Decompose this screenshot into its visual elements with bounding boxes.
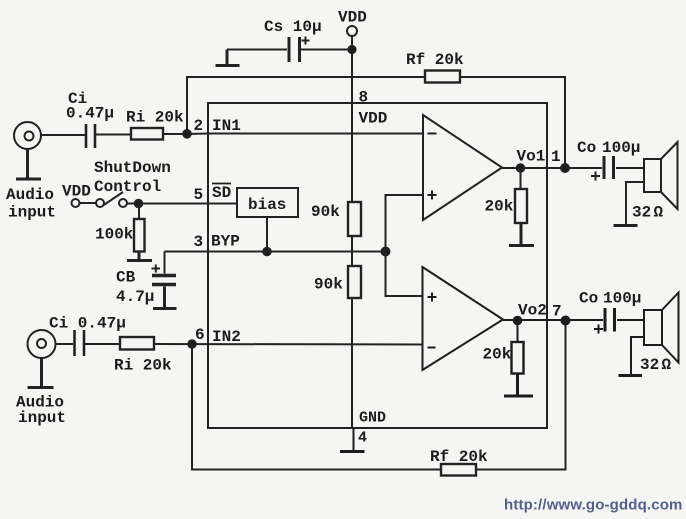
ground for pin 4 xyxy=(340,450,365,453)
connector J1 audio input top xyxy=(14,122,41,149)
pin 4 GND stub xyxy=(353,428,355,450)
op-amp A1 triangle xyxy=(423,115,502,220)
svg-text:VDD: VDD xyxy=(62,183,91,201)
svg-text:Vo1: Vo1 xyxy=(517,148,546,166)
node SD dot xyxy=(135,200,143,208)
svg-text:32: 32 xyxy=(632,204,651,222)
wire BYP to op-amp plus inputs xyxy=(386,195,424,296)
ground for 20k upper xyxy=(509,223,534,246)
A1 minus input mark xyxy=(428,133,437,135)
wire Ci1 to Ri1 xyxy=(96,134,131,136)
svg-text:7: 7 xyxy=(552,303,562,321)
resistor 90k upper xyxy=(348,202,361,236)
node Vo2 feedback dot xyxy=(562,317,570,325)
ground for J2 xyxy=(28,358,54,388)
svg-text:Ri 20k: Ri 20k xyxy=(114,357,172,375)
svg-text:BYP: BYP xyxy=(211,233,240,251)
connector J2 audio input bottom xyxy=(28,330,56,358)
svg-text:100μ: 100μ xyxy=(602,139,640,157)
svg-text:GND: GND xyxy=(359,410,386,427)
op-amp bias box xyxy=(237,188,298,217)
svg-text:SD: SD xyxy=(212,184,231,202)
svg-text:Control: Control xyxy=(94,178,161,196)
node Vo1 20k dot xyxy=(517,164,525,172)
switch SW shutdown circles xyxy=(72,199,80,207)
capacitor Cs plates xyxy=(289,37,300,62)
svg-text:input: input xyxy=(8,204,56,222)
svg-text:Rf 20k: Rf 20k xyxy=(430,448,488,466)
ground for SP2 xyxy=(631,337,644,375)
wire Cs horizontal xyxy=(227,49,352,51)
svg-text:3: 3 xyxy=(194,233,204,251)
wire switch segments xyxy=(80,202,139,205)
svg-text:Co: Co xyxy=(579,290,598,308)
ground for CB xyxy=(153,287,177,309)
wire BYP line pin 3 xyxy=(165,251,386,253)
A2 plus input mark xyxy=(428,293,437,302)
ground for J1 xyxy=(16,149,41,179)
svg-text:20k: 20k xyxy=(485,198,514,216)
svg-text:32: 32 xyxy=(640,356,659,374)
A1 plus input mark xyxy=(428,191,437,200)
wire Ci2 to Ri2 xyxy=(85,343,120,345)
svg-text:Cs 10μ: Cs 10μ xyxy=(264,18,322,36)
capacitor Co2 plates xyxy=(605,308,615,332)
resistor Rf2 20k xyxy=(441,464,476,476)
wire bottom feedback loop IN2 to Vo2 xyxy=(192,321,566,470)
svg-text:90k: 90k xyxy=(314,276,343,294)
wire Ri2 to IN2 pin 6 xyxy=(154,343,423,346)
wire Ri1 to IN1 pin 2 xyxy=(163,133,423,136)
svg-text:Ri 20k: Ri 20k xyxy=(126,109,184,127)
svg-text:VDD: VDD xyxy=(359,110,388,128)
ground for 20k lower xyxy=(504,374,533,397)
node IN1 dot xyxy=(183,130,191,138)
capacitor Co1 plates xyxy=(604,156,614,179)
svg-text:input: input xyxy=(18,409,66,427)
svg-text:1: 1 xyxy=(551,148,561,166)
svg-text:8: 8 xyxy=(359,89,369,107)
svg-text:100μ: 100μ xyxy=(603,290,641,308)
svg-text:IN1: IN1 xyxy=(212,117,241,135)
ground for 100k xyxy=(127,252,152,261)
svg-text:Ci 0.47μ: Ci 0.47μ xyxy=(49,315,126,333)
svg-text:2: 2 xyxy=(194,117,204,135)
capacitor CB 4.7u xyxy=(164,252,166,274)
wire VDD vertical rail (pin 8 down through 90k chain to GND edge) xyxy=(351,37,353,429)
Co2 polarity plus xyxy=(594,325,603,334)
node Vo1 feedback dot xyxy=(561,164,569,172)
svg-text:Co: Co xyxy=(577,139,596,157)
svg-text:Ω: Ω xyxy=(662,356,672,374)
Cs polarity plus xyxy=(302,37,310,45)
svg-text:CB: CB xyxy=(116,269,136,287)
node Vo2 20k dot xyxy=(514,317,522,325)
svg-text:VDD: VDD xyxy=(338,9,367,27)
speaker SP2 xyxy=(644,310,662,345)
node VDD junction dot xyxy=(348,46,355,53)
wire Vo1 output line xyxy=(502,167,644,169)
resistor Rf1 20k xyxy=(425,71,460,83)
svg-text:20k: 20k xyxy=(483,346,512,364)
IC package box U1 xyxy=(208,103,547,428)
resistor 20k upper xyxy=(520,168,522,189)
svg-text:ShutDown: ShutDown xyxy=(94,159,171,177)
svg-text:bias: bias xyxy=(248,196,286,214)
resistor Ri2 20k xyxy=(120,337,154,350)
svg-text:90k: 90k xyxy=(311,203,340,221)
resistor 20k lower xyxy=(517,321,519,343)
node bias junction dot xyxy=(263,248,271,256)
capacitor Ci2 plates xyxy=(75,330,85,356)
svg-text:0.47μ: 0.47μ xyxy=(66,105,114,123)
wire J1 to Ci1 xyxy=(41,134,85,136)
svg-text:Ω: Ω xyxy=(654,204,664,222)
resistor Ri1 20k xyxy=(131,128,163,140)
node IN2 dot xyxy=(188,340,196,348)
ground for Cs xyxy=(216,50,240,66)
svg-text:Vo2: Vo2 xyxy=(518,302,547,320)
CB polarity plus xyxy=(152,265,161,273)
VDD terminal circle xyxy=(347,26,357,36)
svg-text:4: 4 xyxy=(358,430,367,447)
Co1 polarity plus xyxy=(591,172,600,181)
op-amp A2 triangle xyxy=(423,267,504,370)
svg-text:Audio: Audio xyxy=(6,186,54,204)
svg-text:Rf 20k: Rf 20k xyxy=(406,51,464,69)
wire pin 5 SD to bias xyxy=(139,203,238,205)
resistor 90k lower xyxy=(348,266,361,298)
wire Vo2 output line xyxy=(503,319,644,321)
svg-text:5: 5 xyxy=(194,186,204,204)
wire J2 to Ci2 xyxy=(56,343,74,345)
node BYP junction dot xyxy=(382,248,390,256)
ground for SP1 xyxy=(614,182,645,226)
resistor R 100k xyxy=(138,204,140,220)
speaker SP1 xyxy=(644,159,661,192)
svg-text:4.7μ: 4.7μ xyxy=(116,288,154,306)
svg-text:IN2: IN2 xyxy=(212,328,241,346)
capacitor Ci1 plates xyxy=(86,124,95,148)
A2 minus input mark xyxy=(428,347,436,349)
svg-text:http://www.go-gddq.com: http://www.go-gddq.com xyxy=(504,497,683,514)
svg-text:6: 6 xyxy=(195,326,205,344)
switch lever xyxy=(103,192,123,206)
wire bias to BYP xyxy=(266,217,268,252)
wire top feedback loop IN1 to Vo1 xyxy=(187,77,565,167)
svg-text:100k: 100k xyxy=(95,226,134,244)
